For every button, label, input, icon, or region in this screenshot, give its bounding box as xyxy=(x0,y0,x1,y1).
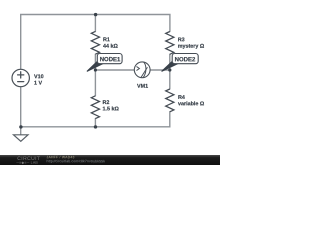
svg-text:─≡◆≡─ LAB: ─≡◆≡─ LAB xyxy=(15,161,38,165)
svg-text:NODE1: NODE1 xyxy=(100,57,121,63)
svg-text:V10: V10 xyxy=(34,74,44,80)
svg-text:1 V: 1 V xyxy=(34,80,42,86)
svg-text:mystery Ω: mystery Ω xyxy=(178,44,205,50)
svg-text:44 kΩ: 44 kΩ xyxy=(103,44,118,50)
svg-text:NODE2: NODE2 xyxy=(175,57,196,63)
svg-text:R3: R3 xyxy=(178,37,185,43)
svg-text:R1: R1 xyxy=(103,37,110,43)
svg-text:http:⁄⁄circuitlab.com⁄c8k7nvtr: http:⁄⁄circuitlab.com⁄c8k7nvtrybk55k xyxy=(46,159,105,163)
svg-text:1.5 kΩ: 1.5 kΩ xyxy=(102,106,119,112)
svg-text:VM1: VM1 xyxy=(137,84,148,90)
svg-text:R4: R4 xyxy=(178,95,185,101)
svg-text:R2: R2 xyxy=(102,100,109,106)
svg-text:variable Ω: variable Ω xyxy=(178,101,205,107)
